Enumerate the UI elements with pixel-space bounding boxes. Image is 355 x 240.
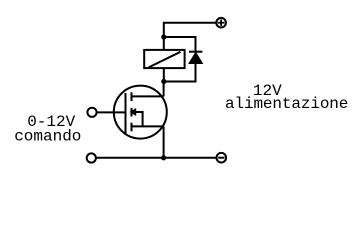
wire: node to relay coil top: [163, 37, 165, 50]
wire: gate terminal to gate plate: [97, 111, 126, 113]
svg-text:comando: comando: [14, 127, 81, 145]
junction: drain node: [161, 79, 166, 84]
diode (flyback), cathode up: [189, 52, 202, 64]
relay coil: [144, 50, 184, 68]
wire: + terminal to relay-top node: [164, 23, 217, 37]
wire: node to diode cathode: [164, 37, 196, 52]
svg-text:alimentazione: alimentazione: [225, 95, 348, 113]
wire: MOSFET source lead to 0V rail: [163, 126, 165, 157]
junction: source / 0V rail node: [161, 155, 166, 160]
junction: relay top node: [161, 34, 166, 39]
terminal: gate input (comando): [87, 108, 96, 117]
wire: drain node down to MOSFET drain lead: [163, 82, 165, 97]
terminal: common 0V (left): [87, 153, 96, 162]
wire: diode anode to drain node: [164, 64, 196, 82]
terminal: +12V supply (+): [216, 18, 226, 28]
terminal: -12V supply (-): [217, 153, 227, 163]
MOSFET (N-channel): [114, 86, 167, 139]
wire: relay coil bottom to drain node: [163, 68, 165, 81]
wire: bottom 0V rail: [96, 157, 216, 159]
